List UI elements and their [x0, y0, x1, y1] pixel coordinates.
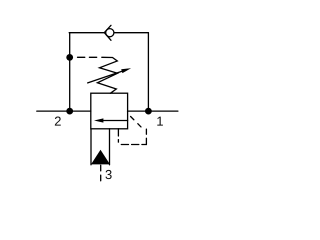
pilot piston solid triangle [91, 150, 110, 165]
junction dot at spring pilot tap [66, 54, 73, 61]
port label 2 [55, 117, 61, 126]
flow arrow head (points left) [94, 118, 103, 122]
check valve CV1 seat [104, 25, 111, 40]
spring adjustment arrow head [121, 68, 131, 73]
pilot tube below valve left wall [90, 129, 92, 165]
wire main line port 1 side [128, 110, 178, 112]
pilot tube below valve right wall [109, 129, 111, 165]
wire top horizontal right segment [115, 32, 149, 34]
check valve CV1 ball [106, 29, 114, 37]
junction dot port 1 [145, 108, 152, 115]
port label 1 [157, 117, 163, 126]
dashed pilot diagonal from port 1 [131, 117, 141, 127]
spring adjustment arrow shaft [88, 71, 124, 83]
dashed line to port 3 [100, 165, 102, 181]
port label 3 [106, 170, 112, 179]
wire main line port 2 side [37, 110, 91, 112]
dashed drain right vertical [145, 129, 147, 144]
dashed drain bottom horizontal [121, 144, 146, 146]
drain stub below valve solid part [117, 129, 119, 136]
wire top horizontal left segment [69, 32, 104, 34]
flow path arrow inside valve [103, 120, 128, 122]
drain stub dash [117, 140, 119, 143]
valve body envelope [91, 93, 128, 129]
wire right vertical (port 1 branch) [147, 33, 149, 111]
adjustable spring [97, 57, 117, 93]
spring pilot dashed line from port 2 [78, 56, 98, 58]
junction dot port 2 [66, 108, 73, 115]
wire left vertical (port 2 branch) [69, 33, 71, 111]
